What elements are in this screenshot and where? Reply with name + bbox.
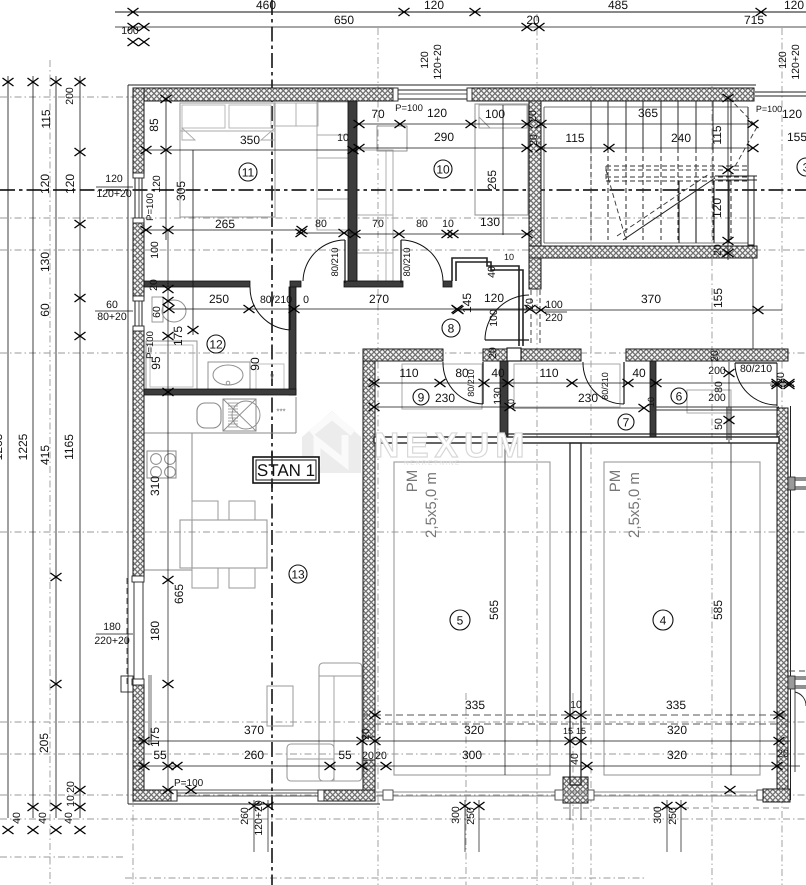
svg-text:80: 80 xyxy=(416,218,428,230)
svg-text:130: 130 xyxy=(492,387,504,405)
svg-text:20: 20 xyxy=(360,728,372,740)
svg-text:665: 665 xyxy=(172,584,186,604)
bathroom right wall xyxy=(289,287,296,395)
left wall glazing bar xyxy=(148,675,152,745)
svg-text:250: 250 xyxy=(465,807,477,825)
svg-text:100: 100 xyxy=(121,25,139,37)
svg-text:130: 130 xyxy=(38,252,52,272)
svg-text:175: 175 xyxy=(148,727,162,747)
svg-text:715: 715 xyxy=(744,13,764,27)
svg-text:265: 265 xyxy=(485,170,499,190)
svg-text:120: 120 xyxy=(782,107,802,121)
PM fence bottom xyxy=(375,791,779,793)
svg-text:220+20: 220+20 xyxy=(94,635,129,647)
svg-text:P=100: P=100 xyxy=(174,778,204,789)
stove xyxy=(147,451,176,478)
svg-text:15: 15 xyxy=(576,726,586,736)
room 7 wardrobe xyxy=(514,364,620,407)
svg-text:290: 290 xyxy=(434,130,454,144)
wall exterior bottom seg1 xyxy=(133,790,177,801)
svg-text:1225: 1225 xyxy=(16,433,30,460)
svg-text:10: 10 xyxy=(570,699,582,711)
svg-text:310: 310 xyxy=(148,476,162,496)
svg-text:20: 20 xyxy=(528,134,540,146)
wall exterior left seg3 xyxy=(133,329,144,578)
svg-text:10: 10 xyxy=(442,218,454,230)
svg-text:70: 70 xyxy=(372,218,384,230)
stair dashed diagonals xyxy=(606,170,626,240)
svg-text:650: 650 xyxy=(334,13,354,27)
svg-text:80/210: 80/210 xyxy=(330,247,341,276)
svg-text:110: 110 xyxy=(399,366,418,380)
wall exterior left seg2 xyxy=(133,222,144,298)
svg-text:120+20: 120+20 xyxy=(253,800,265,835)
svg-text:10: 10 xyxy=(506,399,516,409)
svg-text:250: 250 xyxy=(209,292,229,306)
svg-text:200: 200 xyxy=(64,87,76,105)
svg-text:100: 100 xyxy=(149,241,161,259)
coffee table xyxy=(267,686,293,726)
svg-text:PM: PM xyxy=(607,470,624,493)
svg-text:305: 305 xyxy=(174,181,188,201)
neighbor pier right lower xyxy=(788,676,795,689)
wall rooms 7-6 xyxy=(650,361,656,437)
PM 5 outline xyxy=(394,462,550,775)
svg-text:40: 40 xyxy=(11,812,23,824)
room 6 lower ledge xyxy=(652,406,779,408)
hall dims xyxy=(298,232,355,234)
stairwell treads upper flight xyxy=(590,101,592,148)
wall band mid xyxy=(483,349,581,361)
stair lower flight treads xyxy=(678,181,680,243)
window top (P=100) xyxy=(395,89,470,91)
svg-text:40: 40 xyxy=(632,366,646,380)
passage edge line xyxy=(752,258,754,349)
svg-text:300: 300 xyxy=(450,806,462,824)
svg-text:95: 95 xyxy=(149,356,163,370)
svg-text:60: 60 xyxy=(151,306,163,318)
svg-text:6: 6 xyxy=(676,389,683,403)
wall exterior top-right xyxy=(470,88,754,101)
stairwell south wall xyxy=(529,246,757,258)
svg-text:P=100: P=100 xyxy=(145,331,156,359)
PM 4 outline xyxy=(604,462,760,775)
svg-text:155: 155 xyxy=(787,130,806,144)
svg-text:120: 120 xyxy=(38,174,52,194)
svg-text:20: 20 xyxy=(362,750,374,762)
stair diagonal break xyxy=(623,178,715,240)
bathroom fixtures xyxy=(146,341,197,391)
svg-text:40: 40 xyxy=(569,753,581,765)
svg-text:365: 365 xyxy=(638,106,658,120)
svg-text:100: 100 xyxy=(488,309,500,327)
svg-text:STAN 1: STAN 1 xyxy=(257,461,315,480)
stairwell dims xyxy=(541,123,753,125)
PM top wall (double line) xyxy=(502,433,779,435)
balcony door left (180/220) xyxy=(126,578,128,685)
wall band rooms9 top-left xyxy=(363,349,443,361)
rooms 9/7/6 dims xyxy=(374,382,791,384)
svg-text:320: 320 xyxy=(667,748,687,762)
svg-text:0: 0 xyxy=(303,294,309,306)
wall band right xyxy=(626,349,788,361)
svg-text:320: 320 xyxy=(464,723,484,737)
passage dims xyxy=(458,309,782,311)
door room 9 80/210 xyxy=(482,362,484,404)
svg-text:P=100: P=100 xyxy=(756,104,782,114)
room 10 dims xyxy=(359,123,527,125)
svg-text:120: 120 xyxy=(777,51,789,69)
svg-text:120: 120 xyxy=(151,175,163,193)
svg-text:10: 10 xyxy=(65,795,77,807)
entry door 80/210 xyxy=(485,339,529,341)
wall rooms 9-7 xyxy=(500,361,508,437)
svg-text:100: 100 xyxy=(545,299,563,311)
svg-text:10: 10 xyxy=(646,397,656,407)
svg-text:205: 205 xyxy=(37,733,51,753)
kitchen unit crossed xyxy=(223,399,256,431)
svg-text:1165: 1165 xyxy=(62,434,76,460)
svg-text:8: 8 xyxy=(448,321,455,335)
svg-text:115: 115 xyxy=(39,109,53,128)
window left 1 xyxy=(134,175,136,220)
PM interior dims xyxy=(504,443,506,775)
svg-text:335: 335 xyxy=(465,698,485,712)
svg-text:***: *** xyxy=(276,407,285,416)
svg-text:20: 20 xyxy=(777,748,789,760)
svg-text:120: 120 xyxy=(484,291,504,305)
svg-text:120: 120 xyxy=(710,198,724,218)
hall north wall piece2 xyxy=(344,281,403,287)
svg-text:180: 180 xyxy=(103,621,121,633)
svg-text:120: 120 xyxy=(63,174,77,194)
dining table and chairs xyxy=(180,520,267,568)
svg-text:230: 230 xyxy=(578,391,598,405)
hall north wall piece xyxy=(290,281,301,287)
svg-text:120: 120 xyxy=(784,0,804,12)
svg-text:12: 12 xyxy=(209,337,223,351)
svg-text:40: 40 xyxy=(491,366,505,380)
furniture room 11: shelf/wardrobe xyxy=(274,103,318,126)
svg-text:415: 415 xyxy=(38,445,52,465)
stairwell west wall xyxy=(529,101,541,289)
svg-text:40: 40 xyxy=(37,812,49,824)
dashed PM boundary rows xyxy=(363,714,790,716)
room 9 wardrobe xyxy=(402,364,482,409)
svg-text:200: 200 xyxy=(708,365,726,377)
svg-text:1265: 1265 xyxy=(0,433,5,460)
svg-text:230: 230 xyxy=(435,391,455,405)
svg-text:175: 175 xyxy=(171,326,185,346)
svg-text:20: 20 xyxy=(65,781,77,793)
svg-text:120: 120 xyxy=(105,173,123,185)
svg-text:11: 11 xyxy=(242,165,255,179)
door room 10 80/210 xyxy=(400,240,402,283)
svg-text:10: 10 xyxy=(436,162,450,176)
svg-text:120: 120 xyxy=(424,0,444,12)
svg-text:370: 370 xyxy=(244,723,264,737)
svg-text:300: 300 xyxy=(462,748,482,762)
svg-text:130: 130 xyxy=(480,215,500,229)
svg-text:3: 3 xyxy=(803,160,806,174)
PM divider wall xyxy=(570,443,581,785)
svg-text:120+20: 120+20 xyxy=(432,44,444,79)
svg-text:60: 60 xyxy=(106,299,118,311)
svg-text:335: 335 xyxy=(666,698,686,712)
svg-text:P=100: P=100 xyxy=(395,103,423,114)
hall north wall piece3 xyxy=(443,281,452,287)
svg-text:80+20: 80+20 xyxy=(97,311,127,323)
bottom extension labels xyxy=(253,800,255,852)
svg-text:80: 80 xyxy=(315,218,327,230)
furniture room 11: bed xyxy=(180,103,275,217)
wall exterior left seg4 xyxy=(133,685,144,800)
svg-text:70: 70 xyxy=(371,107,385,121)
window bottom (P=100) xyxy=(177,792,318,794)
bathroom top wall xyxy=(144,281,250,287)
door room 11 80/210 xyxy=(344,240,346,283)
svg-text:80/210: 80/210 xyxy=(740,363,772,375)
kitchen counter xyxy=(144,432,296,434)
svg-text:100: 100 xyxy=(485,107,505,121)
svg-text:7: 7 xyxy=(623,415,630,429)
svg-text:80/210: 80/210 xyxy=(466,369,476,397)
svg-text:90: 90 xyxy=(248,357,262,371)
svg-text:2,5x5,0 m: 2,5x5,0 m xyxy=(626,472,643,538)
svg-text:10: 10 xyxy=(337,132,349,144)
axis grid lines xyxy=(49,60,51,885)
wall exterior top-left xyxy=(133,88,395,101)
door room 7 80/210 xyxy=(623,362,625,404)
svg-text:120: 120 xyxy=(427,106,447,120)
neighbor pier right mid xyxy=(788,477,795,490)
svg-text:120: 120 xyxy=(419,51,431,69)
svg-text:20: 20 xyxy=(375,750,387,762)
svg-text:240: 240 xyxy=(671,131,691,145)
svg-text:5: 5 xyxy=(457,613,464,627)
wall between rooms 11-10 xyxy=(348,101,357,281)
svg-text:20: 20 xyxy=(712,244,724,256)
stair landing wall right xyxy=(715,175,757,177)
STAN 1 label xyxy=(253,457,319,483)
door bathroom 80/210 xyxy=(289,287,291,330)
svg-text:260: 260 xyxy=(239,807,251,825)
svg-text:55: 55 xyxy=(153,748,167,762)
central wall lower gap lines xyxy=(362,737,364,760)
svg-text:20: 20 xyxy=(487,347,499,359)
neighbor wall line top right xyxy=(755,91,806,93)
svg-text:80: 80 xyxy=(713,381,725,393)
room 11 dims xyxy=(146,149,353,151)
wall central vertical xyxy=(363,349,375,737)
svg-text:40: 40 xyxy=(486,266,498,278)
svg-text:15: 15 xyxy=(563,726,573,736)
svg-text:585: 585 xyxy=(711,600,725,620)
svg-text:PM: PM xyxy=(404,470,421,493)
furniture room 10: bed xyxy=(475,104,528,215)
svg-text:350: 350 xyxy=(240,133,260,147)
top dimension chain 2 xyxy=(115,26,806,28)
svg-text:P=100: P=100 xyxy=(145,193,156,221)
svg-text:120+20: 120+20 xyxy=(96,188,131,200)
svg-text:320: 320 xyxy=(667,723,687,737)
svg-text:85: 85 xyxy=(147,118,161,132)
shaft box in wall band xyxy=(507,348,521,361)
svg-text:10: 10 xyxy=(504,252,514,262)
vestibule stepped wall xyxy=(452,258,523,346)
svg-text:565: 565 xyxy=(487,600,501,620)
svg-text:80/210: 80/210 xyxy=(402,247,413,276)
svg-text:20: 20 xyxy=(148,279,160,291)
wall exterior right xyxy=(777,408,788,789)
svg-text:460: 460 xyxy=(256,0,276,12)
svg-text:115: 115 xyxy=(710,125,724,144)
PM divider block xyxy=(563,777,588,803)
svg-text:80/210: 80/210 xyxy=(260,294,292,306)
svg-text:40: 40 xyxy=(63,812,75,824)
svg-text:20: 20 xyxy=(527,110,539,122)
sofa xyxy=(319,663,362,781)
svg-text:80/210: 80/210 xyxy=(600,372,610,400)
svg-text:20: 20 xyxy=(526,13,540,27)
svg-text:50: 50 xyxy=(713,418,725,430)
svg-text:55: 55 xyxy=(338,748,352,762)
wall exterior left seg1 xyxy=(133,88,144,175)
svg-text:∨: ∨ xyxy=(269,372,275,381)
wall exterior bottom seg2 xyxy=(318,790,375,801)
svg-text:110: 110 xyxy=(539,366,558,380)
stair inner wall faces xyxy=(544,106,748,108)
kitchen sink xyxy=(197,403,221,428)
top dimension chain 1 xyxy=(115,11,806,13)
svg-text:115: 115 xyxy=(565,131,584,145)
room circles xyxy=(239,163,257,181)
stair landing dashed box xyxy=(606,165,750,167)
facade offset outline xyxy=(128,84,756,86)
svg-text:120+20: 120+20 xyxy=(790,44,802,79)
svg-text:155: 155 xyxy=(711,288,725,308)
furniture room 10: wardrobe xyxy=(357,150,393,281)
svg-text:20: 20 xyxy=(709,350,721,362)
svg-text:265: 265 xyxy=(215,217,235,231)
svg-text:270: 270 xyxy=(369,292,389,306)
bathroom bottom wall xyxy=(144,389,296,395)
svg-text:20: 20 xyxy=(524,298,536,310)
window left 2 (bath) xyxy=(134,298,136,329)
svg-text:180: 180 xyxy=(148,621,162,641)
svg-text:485: 485 xyxy=(608,0,628,12)
svg-text:4: 4 xyxy=(660,613,667,627)
svg-text:13: 13 xyxy=(291,567,305,581)
entry wall dashed continuation xyxy=(530,290,532,346)
svg-text:NEKRETNINE: NEKRETNINE xyxy=(404,460,461,467)
right wall bottom corner block xyxy=(763,789,790,802)
svg-text:9: 9 xyxy=(418,390,425,404)
left margin dimension lines xyxy=(7,76,9,818)
svg-text:2,5x5,0 m: 2,5x5,0 m xyxy=(423,472,440,538)
svg-text:300: 300 xyxy=(652,806,664,824)
door room 6 80/210 xyxy=(735,362,777,364)
svg-text:220: 220 xyxy=(545,312,563,324)
svg-text:260: 260 xyxy=(244,748,264,762)
svg-text:250: 250 xyxy=(667,807,679,825)
svg-text:60: 60 xyxy=(38,303,52,317)
wall central vertical lower xyxy=(363,760,375,790)
room 6 wardrobe xyxy=(687,390,731,413)
svg-text:370: 370 xyxy=(641,292,661,306)
NEXUM watermark xyxy=(302,411,530,473)
